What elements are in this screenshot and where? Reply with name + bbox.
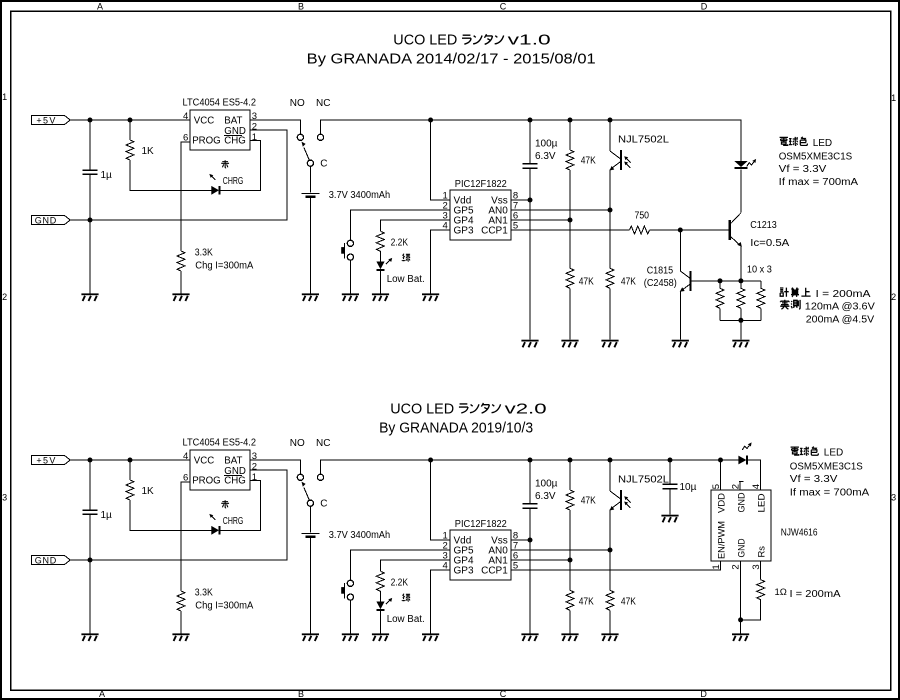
wire to ground bbox=[740, 620, 742, 634]
svg-text:1µ: 1µ bbox=[101, 170, 113, 181]
svg-text:LED: LED bbox=[757, 493, 768, 512]
svg-text:NJW4616: NJW4616 bbox=[781, 527, 818, 538]
resistor 47K upper divider bbox=[566, 120, 596, 268]
svg-text:47K: 47K bbox=[581, 155, 596, 166]
ground bbox=[561, 633, 578, 641]
svg-text:(C2458): (C2458) bbox=[644, 278, 677, 289]
resistor 10ohm c bbox=[757, 281, 765, 320]
node junction bbox=[608, 118, 613, 123]
svg-text:2: 2 bbox=[2, 292, 7, 302]
ground bbox=[521, 633, 538, 641]
svg-text:Ic=0.5A: Ic=0.5A bbox=[750, 238, 789, 249]
IC U2 PIC12F1822 bbox=[443, 179, 519, 240]
svg-text:GND: GND bbox=[737, 538, 748, 557]
switch SW1 NC contact bbox=[317, 134, 323, 140]
node junction bbox=[738, 318, 743, 323]
phototransistor Q1 NJL7502L bbox=[610, 120, 670, 171]
LED Low Bat green bbox=[376, 258, 392, 294]
resistor 10ohm a bbox=[716, 281, 724, 320]
svg-text:47K: 47K bbox=[621, 596, 636, 607]
resistor 3.3K bbox=[177, 247, 254, 293]
node junction bbox=[88, 118, 93, 123]
svg-text:CHRG: CHRG bbox=[223, 176, 244, 187]
svg-text:C1815: C1815 bbox=[647, 266, 674, 277]
wire LED cathode to CHG pin1 bbox=[220, 140, 261, 190]
wire 750 to C1213 base bbox=[650, 229, 730, 231]
wire CCP1 pin5 row bbox=[511, 229, 630, 231]
wire NJL emitter down v2 bbox=[609, 510, 611, 591]
wire BAT pin3 to switch NO bbox=[250, 120, 300, 134]
svg-text:CCP1: CCP1 bbox=[481, 226, 508, 237]
resistor 750 bbox=[630, 210, 650, 234]
ground bbox=[372, 293, 389, 301]
node junction Vdd drop bbox=[428, 118, 433, 123]
svg-text:6.3V: 6.3V bbox=[535, 151, 556, 162]
capacitor 1u bbox=[83, 120, 113, 220]
svg-text:By GRANADA 2019/10/3: By GRANADA 2019/10/3 bbox=[379, 419, 533, 436]
svg-text:C: C bbox=[500, 2, 507, 12]
svg-text:47K: 47K bbox=[579, 596, 594, 607]
title v1.0 bbox=[307, 32, 596, 68]
wire +5V rail left bbox=[70, 119, 190, 121]
node junction AN0 bbox=[608, 208, 613, 213]
svg-text:EN/PWM: EN/PWM bbox=[717, 521, 728, 559]
svg-text:10 x 3: 10 x 3 bbox=[747, 264, 772, 275]
wire sense bottom bus bbox=[720, 319, 761, 321]
svg-text:C: C bbox=[500, 689, 507, 699]
node +5V flag bbox=[32, 115, 71, 125]
resistor 2.2K bbox=[376, 231, 408, 261]
svg-text:OSM5XME3C1S: OSM5XME3C1S bbox=[779, 152, 853, 163]
svg-text:D: D bbox=[701, 2, 708, 12]
svg-text:B: B bbox=[298, 689, 304, 699]
svg-text:NC: NC bbox=[316, 98, 330, 109]
resistor 47K upper divider v2 bbox=[566, 460, 596, 590]
ground bbox=[732, 340, 749, 348]
wire C1815 base to sense resistors bbox=[692, 280, 761, 282]
node junction VDD bbox=[718, 458, 723, 463]
node junction bbox=[128, 118, 133, 123]
resistor 1K bbox=[126, 120, 211, 190]
capacitor 100u bbox=[523, 120, 558, 340]
svg-text:I = 200mA: I = 200mA bbox=[790, 589, 841, 600]
svg-text:VCC: VCC bbox=[194, 116, 214, 127]
svg-text:Vf = 3.3V: Vf = 3.3V bbox=[779, 164, 827, 175]
svg-text:2: 2 bbox=[891, 292, 896, 302]
wire PROG pin6 bbox=[181, 142, 190, 251]
capacitor 10u bbox=[663, 460, 697, 515]
svg-text:PROG: PROG bbox=[192, 136, 221, 147]
svg-text:Low Bat.: Low Bat. bbox=[387, 274, 425, 285]
LED D1 main lantern LED bbox=[734, 120, 756, 168]
wire AN0 pin7 bbox=[511, 209, 610, 211]
LED D2 main lantern LED v2 bbox=[738, 442, 760, 490]
transistor Q3 C1213 driver bbox=[730, 170, 790, 281]
svg-text:LED: LED bbox=[824, 447, 843, 458]
wire 1u to ground bbox=[89, 220, 91, 293]
svg-text:4: 4 bbox=[751, 484, 762, 489]
svg-text:750: 750 bbox=[635, 210, 650, 221]
svg-text:2.2K: 2.2K bbox=[391, 237, 409, 248]
node junction AN1 bbox=[568, 218, 573, 223]
wire GND net bbox=[70, 130, 287, 220]
svg-text:1K: 1K bbox=[142, 146, 155, 157]
wire AN1 pin6 bbox=[511, 219, 570, 221]
resistor 47K NJL load bbox=[606, 268, 636, 339]
svg-text:NJL7502L: NJL7502L bbox=[618, 475, 669, 486]
ground bbox=[601, 340, 618, 348]
svg-text:If max = 700mA: If max = 700mA bbox=[790, 487, 870, 498]
label LED specs v1 bbox=[779, 137, 859, 188]
IC U3 NJW4616 bbox=[711, 460, 818, 570]
ground bbox=[732, 633, 749, 641]
wire Vdd pin1 bbox=[431, 120, 450, 200]
LED CHRG red bbox=[209, 174, 219, 195]
ground bbox=[661, 515, 678, 523]
switch SW1 common contact bbox=[307, 160, 313, 166]
svg-text:5: 5 bbox=[711, 484, 722, 489]
wire to ground bbox=[740, 320, 742, 339]
resistor 47K NJL load v2 bbox=[606, 590, 636, 633]
svg-text:UCO LED: UCO LED bbox=[390, 400, 454, 417]
svg-text:6.3V: 6.3V bbox=[535, 491, 556, 502]
node junction bbox=[528, 118, 533, 123]
wire GND pin2 down bbox=[740, 561, 742, 620]
svg-text:120mA @3.6V: 120mA @3.6V bbox=[805, 301, 875, 312]
svg-text:3.3K: 3.3K bbox=[195, 247, 213, 258]
wire Vss pin8 bbox=[511, 199, 530, 201]
svg-text:VDD: VDD bbox=[717, 493, 728, 513]
svg-text:1: 1 bbox=[711, 564, 722, 569]
label green kanji bbox=[402, 254, 410, 262]
transistor Q2 C1815 current limit bbox=[644, 230, 691, 340]
IC U1 LTC4054 bbox=[183, 97, 257, 150]
node junction bbox=[738, 617, 743, 622]
switch SW1 blade bbox=[302, 142, 310, 161]
title v2.0 bbox=[379, 400, 546, 436]
svg-text:By GRANADA 2014/02/17 - 2015/0: By GRANADA 2014/02/17 - 2015/08/01 bbox=[307, 51, 596, 68]
svg-text:GND: GND bbox=[737, 492, 748, 512]
svg-text:C1213: C1213 bbox=[750, 220, 777, 231]
node junction GND net bbox=[88, 218, 93, 223]
svg-text:3: 3 bbox=[2, 492, 7, 502]
phototransistor Q4 NJL7502L v2 bbox=[610, 460, 670, 511]
ground bbox=[601, 633, 618, 641]
svg-text:GND: GND bbox=[35, 215, 57, 225]
svg-text:Vf = 3.3V: Vf = 3.3V bbox=[790, 474, 838, 485]
svg-text:NJL7502L: NJL7502L bbox=[618, 135, 669, 146]
ground bbox=[672, 340, 689, 348]
svg-text:47K: 47K bbox=[621, 276, 636, 287]
svg-text:v2.0: v2.0 bbox=[505, 400, 547, 417]
node junction bbox=[568, 118, 573, 123]
ground bbox=[81, 293, 98, 301]
resistor 47K lower divider bbox=[566, 268, 594, 339]
svg-text:1: 1 bbox=[2, 92, 7, 102]
svg-text:47K: 47K bbox=[579, 276, 594, 287]
label current notes v1 bbox=[780, 288, 875, 326]
label LED specs v2 bbox=[790, 447, 870, 499]
node junction base bbox=[678, 228, 683, 233]
svg-text:A: A bbox=[97, 2, 103, 12]
svg-text:UCO LED: UCO LED bbox=[393, 32, 457, 49]
wire NJL emitter down bbox=[609, 170, 611, 269]
svg-text:C: C bbox=[320, 158, 327, 169]
wire GP4 pin3 bbox=[380, 220, 450, 231]
svg-text:2: 2 bbox=[252, 121, 257, 132]
wire GP3 pin4 to ground bbox=[431, 230, 450, 293]
svg-text:If max = 700mA: If max = 700mA bbox=[779, 177, 859, 188]
svg-text:4: 4 bbox=[443, 221, 448, 232]
svg-text:A: A bbox=[99, 689, 105, 699]
ground bbox=[521, 340, 538, 348]
switch SW1 NO contact bbox=[297, 134, 303, 140]
svg-text:2: 2 bbox=[730, 484, 741, 489]
ground bbox=[172, 293, 189, 301]
svg-text:v1.0: v1.0 bbox=[508, 32, 551, 49]
svg-text:PIC12F1822: PIC12F1822 bbox=[455, 179, 507, 190]
capacitor 100u v2 bbox=[523, 460, 558, 633]
svg-text:200mA @4.5V: 200mA @4.5V bbox=[806, 314, 875, 325]
svg-text:1: 1 bbox=[891, 93, 896, 103]
resistor 47K lower divider v2 bbox=[566, 590, 594, 633]
wire NC to +V rail bbox=[321, 120, 739, 134]
svg-text:LTC4054 ES5-4.2: LTC4054 ES5-4.2 bbox=[183, 97, 257, 108]
svg-text:Rs: Rs bbox=[757, 546, 768, 558]
svg-text:3.7V 3400mAh: 3.7V 3400mAh bbox=[329, 190, 391, 201]
label red kanji bbox=[221, 160, 229, 168]
wire CCP1 pin5 row to NJW4616 EN bbox=[511, 561, 721, 570]
wire GP5 pin2 to pushbutton bbox=[350, 210, 450, 240]
svg-text:3: 3 bbox=[751, 564, 762, 569]
svg-text:+5V: +5V bbox=[36, 115, 55, 125]
ground bbox=[302, 293, 319, 301]
svg-text:LED: LED bbox=[813, 138, 832, 149]
svg-text:10µ: 10µ bbox=[680, 482, 697, 493]
battery BT1 3.7V bbox=[301, 166, 390, 293]
svg-text:I = 200mA: I = 200mA bbox=[816, 289, 871, 300]
svg-text:NO: NO bbox=[290, 98, 305, 109]
node junction bbox=[738, 278, 743, 283]
svg-text:3: 3 bbox=[891, 492, 896, 502]
node junction 10u bbox=[668, 458, 673, 463]
svg-text:47K: 47K bbox=[581, 495, 596, 506]
svg-text:B: B bbox=[298, 2, 304, 12]
svg-text:100µ: 100µ bbox=[535, 479, 558, 490]
node GND flag bbox=[32, 215, 71, 225]
resistor 10ohm b bbox=[737, 281, 745, 320]
svg-text:CHG: CHG bbox=[224, 136, 246, 147]
node junction Vss bbox=[528, 198, 533, 203]
node junction bbox=[718, 278, 723, 283]
pushbutton SW2 bbox=[341, 240, 353, 293]
svg-text:1: 1 bbox=[252, 132, 257, 143]
svg-text:1Ω: 1Ω bbox=[775, 587, 787, 598]
svg-text:2: 2 bbox=[730, 564, 741, 569]
svg-text:OSM5XME3C1S: OSM5XME3C1S bbox=[790, 461, 863, 472]
svg-text:GP3: GP3 bbox=[454, 226, 474, 237]
ground bbox=[561, 340, 578, 348]
resistor Rs 1ohm bbox=[741, 561, 841, 620]
svg-text:4: 4 bbox=[183, 111, 188, 122]
ground bbox=[422, 293, 439, 301]
svg-text:Chg I=300mA: Chg I=300mA bbox=[195, 260, 253, 271]
ground bbox=[342, 293, 359, 301]
svg-text:100µ: 100µ bbox=[535, 139, 558, 150]
svg-text:D: D bbox=[700, 689, 707, 699]
